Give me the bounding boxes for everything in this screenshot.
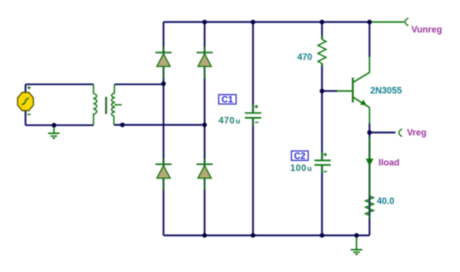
transformer center tap stub xyxy=(114,104,122,106)
wire primary loop top xyxy=(26,83,94,85)
transformer core xyxy=(105,97,107,114)
wire base horizontal xyxy=(322,90,337,92)
wire left bridge vertical x=163.5 xyxy=(163,22,165,235)
diode D3 (bottom-left) xyxy=(155,159,171,191)
junction dot primary ground xyxy=(52,123,57,128)
junction dot bottom rail x=322 xyxy=(320,233,325,238)
AC source V1 octagon xyxy=(18,92,34,110)
wire R470/C2 vertical x=322 xyxy=(321,22,323,235)
junction dot bottom rail x=253 xyxy=(251,233,256,238)
svg-text:C2: C2 xyxy=(294,151,306,161)
capacitor C1 plates xyxy=(245,105,261,127)
svg-text:C1: C1 xyxy=(222,95,234,105)
wire top rail xyxy=(164,21,370,23)
svg-text:Iload: Iload xyxy=(379,158,400,168)
junction dot top rail x=253 xyxy=(251,20,256,25)
svg-text:Vreg: Vreg xyxy=(407,128,427,138)
resistor R2 zigzag xyxy=(369,216,371,219)
transformer T1 secondary coil xyxy=(112,84,115,125)
source plus sign xyxy=(27,86,30,89)
ground (primary) xyxy=(48,125,60,138)
transformer T1 primary coil xyxy=(94,84,97,125)
svg-text:470: 470 xyxy=(297,52,312,62)
svg-text:40.0: 40.0 xyxy=(377,196,395,206)
label box C1 xyxy=(219,95,236,105)
transistor Q1 base lead xyxy=(337,90,353,92)
wire secondary top horizontal xyxy=(115,83,164,85)
svg-text:2N3055: 2N3055 xyxy=(370,86,402,96)
wire secondary bottom horizontal xyxy=(114,124,205,126)
diode D2 (top-right) xyxy=(197,47,213,79)
junction dot bottom rail x=204.6 xyxy=(202,233,207,238)
transistor Q1 collector xyxy=(353,57,370,83)
transistor Q1 emitter with arrow xyxy=(353,97,370,124)
svg-text:470u: 470u xyxy=(219,116,241,126)
wire bottom rail xyxy=(164,234,370,236)
wire second bridge vertical x=204.6 xyxy=(204,22,206,235)
Vunreg tie wire xyxy=(370,21,405,23)
junction dot bottom ground xyxy=(354,233,359,238)
junction dot top rail x=322 xyxy=(320,20,325,25)
resistor R1 zigzag xyxy=(321,35,323,67)
capacitor C2 plates xyxy=(314,152,330,173)
source minus sign xyxy=(27,113,30,115)
wire C1 vertical x=253 xyxy=(252,22,254,235)
svg-text:100u: 100u xyxy=(290,163,312,173)
junction dot secondary bottom at bridge xyxy=(202,123,207,128)
diode D4 (bottom-right) xyxy=(197,159,213,191)
junction dot top rail x=204.6 xyxy=(202,20,207,25)
wire Vreg horizontal xyxy=(370,132,396,134)
Iload current arrow xyxy=(366,159,374,167)
junction dot secondary bottom terminal xyxy=(120,123,125,128)
wire Vreg-to-Rload green segment xyxy=(369,137,371,196)
junction dot base xyxy=(320,89,325,94)
Vreg tie arc xyxy=(399,129,402,137)
junction dot top rail x=369.5 xyxy=(367,20,372,25)
wire source vertical xyxy=(25,84,27,125)
transistor Q1 base bar xyxy=(352,78,354,103)
label box C2 xyxy=(291,151,308,161)
svg-text:Vunreg: Vunreg xyxy=(411,25,442,35)
wire primary loop bottom xyxy=(26,124,94,126)
ground (bottom) xyxy=(351,235,363,254)
junction dot Vreg node xyxy=(367,130,372,135)
Vunreg tie arc xyxy=(405,18,409,26)
junction dot secondary top xyxy=(161,81,166,86)
diode D1 (top-left) xyxy=(155,47,171,79)
wire collector/emitter vertical x=369.5 xyxy=(369,22,371,235)
